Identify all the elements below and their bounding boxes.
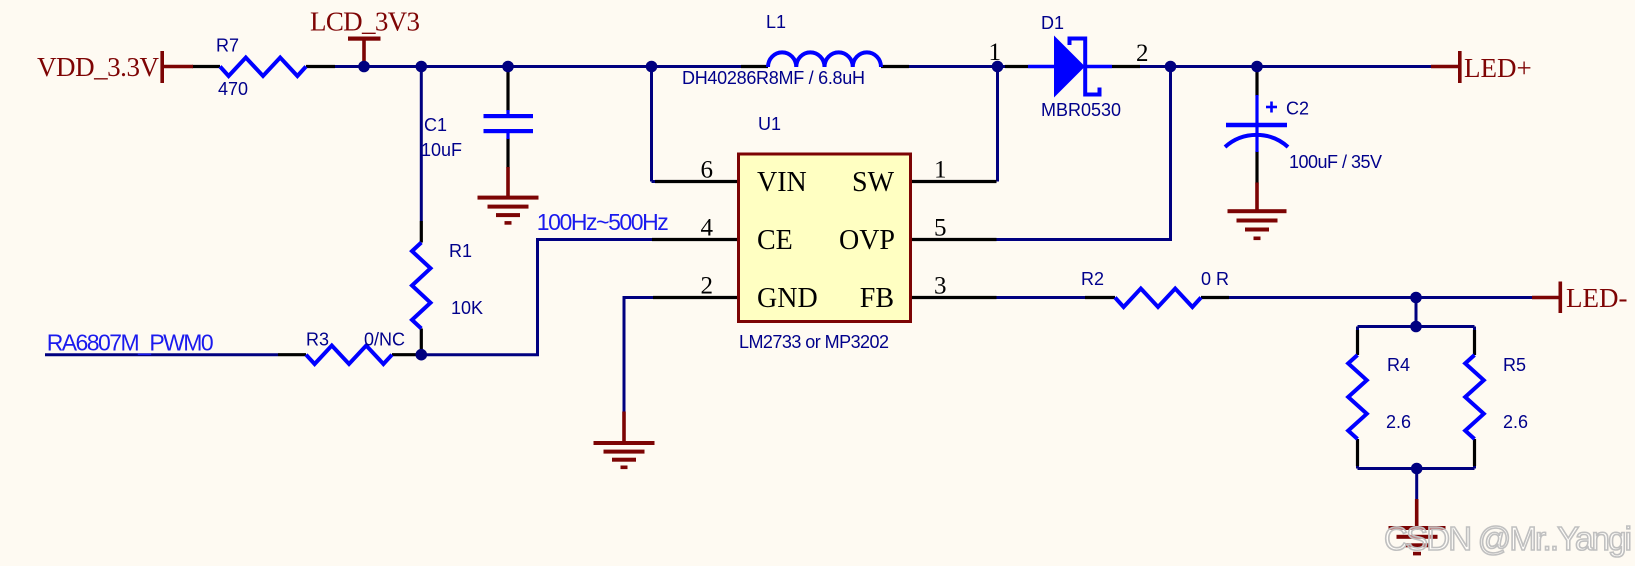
svg-text:RA6807M_PWM0: RA6807M_PWM0	[47, 330, 214, 356]
svg-text:LM2733 or MP3202: LM2733 or MP3202	[739, 332, 889, 352]
svg-text:C1: C1	[424, 115, 447, 135]
svg-text:VDD_3.3V: VDD_3.3V	[37, 52, 160, 82]
svg-text:5: 5	[934, 215, 947, 242]
svg-text:2.6: 2.6	[1503, 412, 1528, 432]
svg-text:C2: C2	[1286, 99, 1309, 119]
svg-text:L1: L1	[766, 12, 786, 32]
svg-text:MBR0530: MBR0530	[1041, 100, 1121, 120]
svg-text:VIN: VIN	[757, 167, 807, 198]
svg-text:0/NC: 0/NC	[364, 330, 405, 350]
svg-text:100Hz~500Hz: 100Hz~500Hz	[537, 209, 669, 235]
svg-text:R2: R2	[1081, 269, 1104, 289]
svg-text:R3: R3	[306, 330, 329, 350]
svg-text:CSDN @Mr..Yangi: CSDN @Mr..Yangi	[1384, 520, 1632, 557]
svg-text:2.6: 2.6	[1386, 412, 1411, 432]
svg-text:100uF / 35V: 100uF / 35V	[1289, 152, 1382, 172]
svg-text:10K: 10K	[451, 298, 483, 318]
svg-text:CE: CE	[757, 225, 793, 256]
svg-text:R7: R7	[216, 36, 239, 56]
svg-text:1: 1	[934, 157, 947, 184]
svg-text:1: 1	[989, 39, 1002, 66]
svg-text:DH40286R8MF / 6.8uH: DH40286R8MF / 6.8uH	[682, 68, 865, 88]
svg-text:2: 2	[1136, 40, 1149, 67]
svg-text:GND: GND	[757, 283, 818, 314]
svg-text:470: 470	[218, 79, 248, 99]
svg-text:LED+: LED+	[1464, 53, 1532, 83]
svg-text:10uF: 10uF	[421, 140, 462, 160]
svg-text:SW: SW	[852, 167, 895, 198]
svg-text:6: 6	[701, 157, 714, 184]
svg-text:3: 3	[934, 273, 947, 300]
svg-text:D1: D1	[1041, 13, 1064, 33]
svg-text:0 R: 0 R	[1201, 269, 1229, 289]
svg-text:R5: R5	[1503, 355, 1526, 375]
svg-text:R4: R4	[1387, 355, 1410, 375]
svg-text:2: 2	[701, 273, 714, 300]
svg-text:U1: U1	[758, 114, 781, 134]
svg-text:LED-: LED-	[1566, 283, 1627, 313]
svg-text:R1: R1	[449, 241, 472, 261]
svg-text:LCD_3V3: LCD_3V3	[310, 7, 420, 37]
svg-text:OVP: OVP	[839, 225, 895, 256]
svg-text:4: 4	[701, 215, 714, 242]
svg-text:FB: FB	[860, 283, 894, 314]
